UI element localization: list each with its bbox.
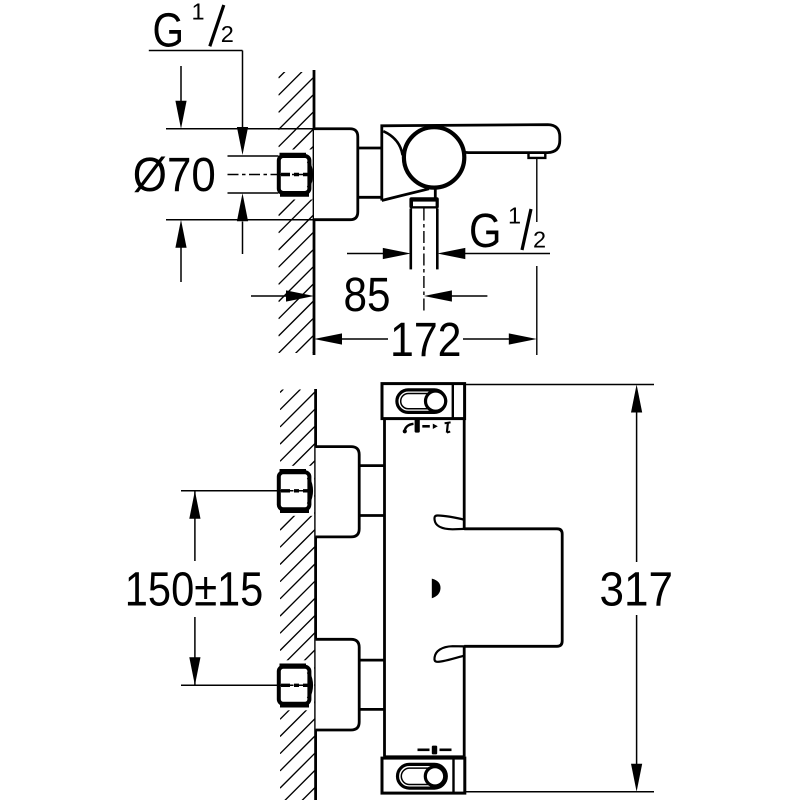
wall hatching (bottom view) (280, 358, 315, 800)
G1/2 pipe dimension (347, 253, 384, 255)
pipe centerline (423, 209, 425, 314)
svg-text:G: G (153, 4, 185, 57)
top cap (382, 384, 465, 419)
outlet transition curve (top) (434, 515, 464, 529)
svg-text:1: 1 (508, 203, 521, 229)
hose union nut (409, 197, 438, 208)
aerator under spout tip (529, 153, 546, 158)
wall line (bottom view) (314, 389, 317, 800)
upper inlet fitting (front view) (277, 466, 315, 516)
svg-text:2: 2 (533, 227, 546, 253)
lower S-union block (316, 639, 360, 730)
svg-text:317: 317 (600, 564, 674, 617)
control knob circle (side view) (404, 127, 464, 187)
svg-text:1: 1 (192, 0, 205, 24)
svg-text:2: 2 (221, 21, 234, 47)
outlet transition curve (bottom) (434, 646, 464, 662)
escutcheon wall flange (top view) (314, 129, 358, 220)
hose outlet pipe (409, 209, 412, 270)
upper stub pipe (359, 464, 384, 467)
lower stub pipe (359, 659, 384, 662)
faucet body outline (side view) (382, 125, 560, 201)
317 dimension (636, 411, 638, 562)
G1/2 leader to fitting (149, 50, 243, 52)
317 extension lines (466, 384, 655, 386)
svg-text:85: 85 (344, 269, 391, 322)
shoulder curve (383, 131, 402, 155)
172 dimension (314, 333, 342, 344)
85 dimension (251, 295, 287, 297)
temperature knob marker (432, 579, 441, 599)
svg-text:150±15: 150±15 (125, 564, 263, 617)
indicator icons under top cap (404, 424, 413, 433)
svg-text:172: 172 (390, 314, 462, 367)
G1/2 inlet fitting (top view, in wall) (277, 150, 313, 200)
bottom diverter button (398, 764, 447, 788)
body bottom slant (382, 189, 429, 201)
marker above bottom cap (418, 748, 430, 751)
bottom cap (382, 758, 465, 793)
wall line (top view) (313, 70, 316, 355)
bath spout outlet block (464, 529, 562, 647)
top diverter button (397, 390, 446, 413)
neck below knob (434, 187, 437, 198)
172 right extension line (from aerator) (536, 158, 538, 222)
svg-text:Ø70: Ø70 (133, 149, 216, 202)
Ø70 dimension arrows (180, 66, 182, 103)
thermostat body (front view) (386, 420, 463, 755)
Ø70 extension lines (166, 128, 314, 130)
lower inlet fitting (front view) (277, 660, 315, 710)
150±15 extension/center lines (181, 490, 279, 492)
upper S-union block (316, 447, 360, 537)
150±15 dimension (194, 491, 196, 561)
faucet neck stub (top view) (358, 147, 382, 150)
svg-text:G: G (469, 205, 502, 258)
fitting extension lines + centerline (228, 155, 279, 157)
wall hatching (top view) (279, 43, 314, 422)
